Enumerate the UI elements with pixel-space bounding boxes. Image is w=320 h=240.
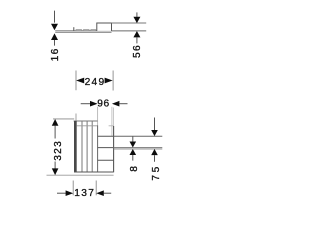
8 up arrow <box>130 149 137 155</box>
323 dimension line upper <box>54 126 56 139</box>
bump 1 <box>76 29 82 30</box>
8 lower leader <box>132 155 134 161</box>
75 up arrow <box>151 149 158 155</box>
body top edge <box>74 120 98 122</box>
body thick left edge <box>74 121 77 172</box>
dimension 16: lower leader line <box>54 40 56 46</box>
svg-text:16: 16 <box>50 47 61 61</box>
dimension 56: down arrow <box>133 17 140 23</box>
plate bottom surface line <box>55 32 111 34</box>
plate top surface line <box>55 30 146 32</box>
spout middle line <box>114 147 163 149</box>
323 up arrow <box>52 119 59 126</box>
svg-text:96: 96 <box>97 98 110 109</box>
137 right arrow <box>96 190 104 196</box>
dimension 56: upper leader line <box>136 12 138 17</box>
137 right extension line <box>95 181 97 196</box>
body bottom edge <box>74 171 114 173</box>
dimension 16: upper leader line <box>54 11 56 23</box>
dimension 249: right extension line <box>112 71 114 91</box>
dimension 96: left arrow <box>90 101 98 107</box>
bump 3 <box>91 29 96 30</box>
svg-text:137: 137 <box>74 188 95 199</box>
dimension 16: down arrow <box>51 24 58 31</box>
svg-text:249: 249 <box>85 77 106 88</box>
inner ledge line <box>77 125 98 127</box>
short ledge right segment <box>109 125 114 127</box>
rung 2 <box>98 147 114 149</box>
96 right extension dropping to body <box>111 107 113 136</box>
dimension 56: lower leader line <box>136 37 138 43</box>
slat line 2 <box>86 121 88 172</box>
137 right leader line <box>104 192 112 194</box>
75 upper leader <box>154 118 156 132</box>
extension line right from box top <box>112 22 147 24</box>
dimension 56: up arrow <box>133 31 140 37</box>
dimension 249: right arrow <box>105 78 113 84</box>
left tick on plate <box>73 27 75 31</box>
dimension 96: left leader line <box>81 103 91 105</box>
spout top line <box>114 135 163 137</box>
8 upper leader <box>132 136 134 142</box>
323 dimension line lower <box>54 162 56 170</box>
svg-text:75: 75 <box>151 164 162 181</box>
75 lower leader <box>154 155 156 162</box>
body right inner edge <box>97 125 99 172</box>
dimension 16: up arrow <box>51 33 58 40</box>
body right edge faint upper part <box>113 108 115 127</box>
137 left arrow <box>66 190 74 196</box>
137 left leader line <box>57 192 66 194</box>
svg-text:323: 323 <box>53 140 64 161</box>
323 top extension line <box>53 118 74 120</box>
137 left extension line <box>72 181 74 196</box>
96 left extension dropping to body <box>97 107 99 126</box>
75 down arrow <box>151 130 158 136</box>
323 bottom extension line <box>47 174 114 176</box>
slat line 3 <box>91 121 93 172</box>
dimension 96: right arrow <box>112 101 120 107</box>
dimension 96: right leader line <box>119 103 127 105</box>
bump 2 <box>83 29 89 30</box>
rung 3 <box>98 159 114 161</box>
dimension 249: left arrow <box>76 78 84 84</box>
right section outer edge <box>113 126 115 172</box>
249 left extension stub above body <box>75 114 77 122</box>
323 down arrow <box>52 168 59 175</box>
dimension 249: left extension line <box>75 71 77 91</box>
svg-text:56: 56 <box>132 44 143 58</box>
slat line 1 <box>81 121 83 172</box>
svg-text:8: 8 <box>129 166 140 172</box>
rung 1 <box>98 135 114 137</box>
spout lower line <box>114 148 163 150</box>
raised box on plate <box>97 23 112 31</box>
8 down arrow <box>130 142 137 148</box>
